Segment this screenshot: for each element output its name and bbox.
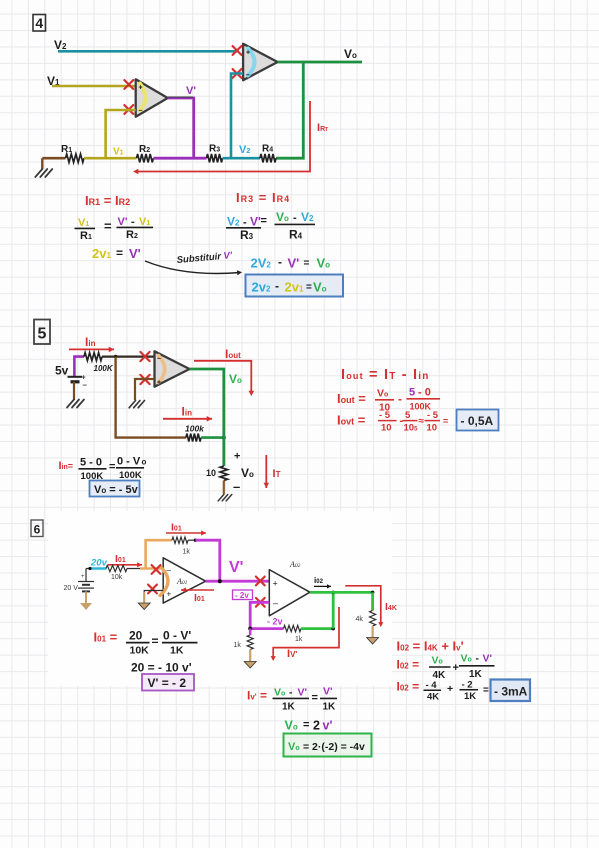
wire 1k to output node (green) xyxy=(301,627,335,631)
svg-text:5: 5 xyxy=(409,387,415,399)
svg-text:IT: IT xyxy=(273,468,281,480)
svg-text:2v1: 2v1 xyxy=(92,246,111,261)
node V1 junction label xyxy=(113,147,124,158)
svg-text:V2: V2 xyxy=(227,215,240,229)
svg-text:=: = xyxy=(261,215,267,227)
resistor 1k feedback xyxy=(172,537,197,556)
X mark A01 minus input xyxy=(152,565,161,574)
equation 20 = -10V' xyxy=(131,661,192,675)
boxed result Vo = 2(-2) = -4v xyxy=(284,734,372,757)
X mark U3 minus input xyxy=(140,352,149,361)
svg-text:+: + xyxy=(447,683,453,695)
svg-text:=: = xyxy=(306,282,312,293)
equation Io2 = I4K + Iv' xyxy=(397,639,464,654)
svg-text:V': V' xyxy=(323,686,333,698)
current label I01 output xyxy=(181,587,214,604)
svg-text:-: - xyxy=(275,279,279,293)
wire 10 to ground (brown) xyxy=(223,481,225,495)
wire ground to R1 (brown) xyxy=(42,157,65,160)
X mark U1 plus input xyxy=(124,80,133,89)
svg-text:1k: 1k xyxy=(183,549,191,556)
svg-text:V': V' xyxy=(298,687,308,699)
current arrow I4K xyxy=(345,586,397,627)
svg-text:- 2v: - 2v xyxy=(235,591,249,600)
svg-text:100K: 100K xyxy=(119,470,142,481)
resistor 4k load xyxy=(356,592,379,644)
ground G3 xyxy=(129,401,144,408)
svg-text:10: 10 xyxy=(206,468,216,478)
svg-text:Vo: Vo xyxy=(432,655,443,667)
resistor 10 load xyxy=(206,451,254,495)
battery B1 xyxy=(68,375,88,401)
svg-text:IRT: IRT xyxy=(317,122,328,134)
wire 20v overdraw (teal) xyxy=(88,567,106,570)
svg-text:Vo: Vo xyxy=(285,719,298,733)
wire U1 feedback (olive) xyxy=(106,110,136,158)
svg-text:V': V' xyxy=(288,256,300,271)
current label I01 feedback xyxy=(166,522,206,536)
wire R2 to R3 (purple) xyxy=(153,157,206,160)
svg-text:R4: R4 xyxy=(289,227,303,241)
wire A01 output V-prime (purple) xyxy=(206,579,270,583)
svg-text:=: = xyxy=(116,246,123,260)
wire resistor to U3 (dark) xyxy=(102,355,155,359)
svg-text:V1: V1 xyxy=(78,217,89,229)
op-amp U3 xyxy=(155,351,190,386)
svg-text:R1: R1 xyxy=(61,144,72,155)
svg-text:V' = - 2: V' = - 2 xyxy=(148,676,187,690)
equation IR1 = IR2 xyxy=(85,193,130,208)
wire U2 output Vo (green) xyxy=(276,62,362,158)
resistor R4 xyxy=(260,144,276,163)
ground G4 xyxy=(218,495,232,501)
svg-text:+: + xyxy=(234,451,240,463)
node V1 label xyxy=(47,74,60,88)
svg-text:V': V' xyxy=(129,246,141,261)
svg-text:=: = xyxy=(152,634,159,648)
svg-text:+: + xyxy=(246,50,250,57)
node V2 label xyxy=(54,38,67,52)
svg-text:V1: V1 xyxy=(113,147,124,158)
current arrow IRT xyxy=(133,101,328,174)
svg-text:Iout: Iout xyxy=(225,347,241,361)
svg-text:2: 2 xyxy=(313,719,320,733)
svg-text:Iin=: Iin= xyxy=(59,460,74,472)
label -2v boxed xyxy=(233,590,253,600)
wire V2 input (teal) xyxy=(58,50,237,53)
resistor R2 xyxy=(137,144,154,162)
X mark U3 plus input xyxy=(140,375,149,384)
svg-text:Iout = IT - Iin: Iout = IT - Iin xyxy=(341,367,430,383)
svg-text:Substituir V': Substituir V' xyxy=(176,250,233,266)
svg-text:R3: R3 xyxy=(209,144,220,155)
svg-text:Vo: Vo xyxy=(274,687,285,699)
X mark A01 plus input xyxy=(148,585,157,594)
resistor 1k feedback A02 xyxy=(284,625,303,643)
svg-text:R1: R1 xyxy=(80,230,92,242)
svg-text:Iin: Iin xyxy=(182,405,193,419)
svg-text:10: 10 xyxy=(381,423,392,434)
op-amp U1 xyxy=(136,79,168,116)
boxed result Vo = -5v xyxy=(90,481,140,497)
svg-text:= 2·(-2) = -4v: = 2·(-2) = -4v xyxy=(303,741,365,753)
boxed result -0.5A xyxy=(457,410,499,431)
svg-text:10K: 10K xyxy=(130,645,150,657)
svg-text:Vo: Vo xyxy=(461,653,472,665)
svg-text:V2: V2 xyxy=(301,210,314,224)
equation (V2-V')/R3 = (Vo-V2)/R4 xyxy=(226,210,315,242)
node V-prime label p6 xyxy=(229,559,243,576)
equation Io2 = -4/4K + -2/1K = -3mA xyxy=(397,680,490,703)
svg-text:4K: 4K xyxy=(427,692,439,703)
svg-text:Vo = - 5v: Vo = - 5v xyxy=(94,484,139,496)
current label Iin top xyxy=(69,335,114,352)
svg-text:Vo: Vo xyxy=(241,466,254,480)
svg-text:Vo: Vo xyxy=(229,372,242,386)
svg-text:-: - xyxy=(476,653,480,665)
wire U3 plus to ground (brown) xyxy=(135,379,155,400)
svg-text:1K: 1K xyxy=(323,702,337,713)
wire R1 to R2 node V1 (olive) xyxy=(84,157,137,160)
svg-text:=: = xyxy=(312,692,318,704)
svg-text:+: + xyxy=(273,579,278,589)
problem number 4 box xyxy=(33,15,46,32)
voltage source 20V xyxy=(64,569,95,611)
wire feedback to output node (green) xyxy=(201,436,226,440)
node V2 junction label xyxy=(239,144,250,156)
svg-text:=: = xyxy=(104,219,112,234)
svg-text:1K: 1K xyxy=(469,669,483,680)
current arrow Iout xyxy=(194,347,254,396)
equation V1/R1 = (V'-V1)/R2 xyxy=(75,216,154,242)
feedback wire (brown) xyxy=(116,357,186,438)
resistor 10k xyxy=(106,565,127,581)
svg-text:105: 105 xyxy=(404,423,419,434)
label -2v feedback xyxy=(267,617,283,627)
wire R3 to R4 node V2 (teal) xyxy=(223,157,261,160)
wire green vertical junction xyxy=(331,591,335,629)
svg-text:1k: 1k xyxy=(234,642,242,649)
svg-text:10k: 10k xyxy=(111,574,123,581)
svg-text:+: + xyxy=(139,85,143,92)
resistor 1k to ground xyxy=(234,629,257,668)
svg-text:5v: 5v xyxy=(55,364,69,378)
current label Iin feedback xyxy=(163,405,212,422)
svg-text:+: + xyxy=(453,662,459,674)
source 5v wire (purple) xyxy=(74,357,84,376)
node Vo label xyxy=(229,372,242,386)
wire A01 plus to ground xyxy=(144,591,163,603)
svg-text:- 0,5A: - 0,5A xyxy=(461,414,494,428)
feedback wire orange up xyxy=(146,540,172,568)
svg-text:I02 =: I02 = xyxy=(397,680,420,694)
resistor 100K input xyxy=(84,353,114,373)
svg-text:R4: R4 xyxy=(262,144,273,155)
resistor 100k feedback xyxy=(185,423,205,441)
substitution arrow xyxy=(145,250,242,275)
svg-text:- 5: - 5 xyxy=(379,410,391,421)
problem number 5 box xyxy=(34,320,50,345)
ground G2 xyxy=(67,400,84,408)
svg-text:R2: R2 xyxy=(126,229,138,241)
boxed result V' = -2 xyxy=(142,674,194,691)
svg-text:I01 =: I01 = xyxy=(94,630,118,645)
equation I01 = 20/10K = (0-V')/1K xyxy=(94,629,198,657)
svg-text:-: - xyxy=(278,255,282,269)
svg-text:2V2: 2V2 xyxy=(251,256,272,271)
svg-text:Iovt =: Iovt = xyxy=(337,413,366,428)
svg-text:- 0: - 0 xyxy=(418,387,431,399)
svg-text:Vo: Vo xyxy=(344,47,357,61)
svg-text:+: + xyxy=(81,574,85,580)
svg-text:I02 = I4K + Iv': I02 = I4K + Iv' xyxy=(397,639,464,654)
problem number 6 box xyxy=(31,520,43,537)
svg-text:–: – xyxy=(83,381,88,390)
svg-text:V': V' xyxy=(186,85,196,97)
svg-text:V': V' xyxy=(250,215,261,229)
svg-text:-: - xyxy=(131,216,135,228)
svg-text:1K: 1K xyxy=(282,702,296,713)
svg-text:R3: R3 xyxy=(240,228,254,242)
X mark U1 minus input xyxy=(124,105,133,114)
X mark A02 minus input xyxy=(256,598,265,607)
wire overdraw orange input xyxy=(140,567,160,570)
equation Io2 = Vo/4K + (Vo-V')/1K xyxy=(397,653,495,682)
label io2 printed xyxy=(314,576,331,589)
svg-text:5: 5 xyxy=(38,326,47,343)
svg-text:IV': IV' xyxy=(287,648,297,660)
wire V1 input (olive) xyxy=(52,85,136,88)
X mark A02 plus input xyxy=(256,577,265,586)
svg-text:Vo: Vo xyxy=(377,388,388,400)
wire U3 output Vo (green) xyxy=(190,369,224,466)
ground A01 (printed) xyxy=(138,603,150,610)
svg-text:0 - V': 0 - V' xyxy=(163,629,191,643)
svg-text:Vo: Vo xyxy=(276,210,289,224)
svg-text:20v: 20v xyxy=(90,558,108,569)
svg-text:–: – xyxy=(246,72,250,79)
svg-text:–: – xyxy=(157,356,161,363)
node Vo label xyxy=(344,47,357,61)
equation 2V2 - V' = Vo xyxy=(251,255,331,271)
wire source top (printed) xyxy=(86,568,106,570)
svg-text:100K: 100K xyxy=(94,364,114,373)
feedback wire purple down xyxy=(195,540,219,581)
svg-text:-: - xyxy=(293,212,297,224)
boxed result -3mA xyxy=(491,680,531,702)
svg-text:V': V' xyxy=(118,216,128,228)
svg-text:V': V' xyxy=(483,653,493,665)
svg-text:=: = xyxy=(303,719,309,731)
svg-text:=: = xyxy=(443,416,448,426)
boxed result 2V2 - 2V1 = Vo xyxy=(246,275,344,297)
svg-text:- 2v: - 2v xyxy=(267,617,283,627)
svg-text:- 3mA: - 3mA xyxy=(494,685,528,699)
X mark U2 plus input xyxy=(233,46,242,55)
svg-text:V2: V2 xyxy=(54,38,67,52)
svg-text:1k: 1k xyxy=(295,636,303,643)
svg-text:-: - xyxy=(243,217,247,229)
svg-text:5 - 0: 5 - 0 xyxy=(80,457,102,469)
label 20v teal xyxy=(90,558,108,569)
svg-text:1K: 1K xyxy=(170,645,184,657)
equation Iout = IT - Iin xyxy=(341,367,430,383)
svg-text:Iout =: Iout = xyxy=(337,391,366,406)
svg-text:=: = xyxy=(304,258,310,269)
X mark U2 minus input xyxy=(233,69,242,78)
svg-text:- 2: - 2 xyxy=(462,680,473,691)
equation 2V1 = V-prime xyxy=(92,246,141,261)
svg-text:–: – xyxy=(273,598,278,608)
svg-text:≈: ≈ xyxy=(419,416,425,427)
svg-text:4k: 4k xyxy=(356,616,364,623)
feedback wire A02 (purple) xyxy=(248,602,283,630)
svg-text:=: = xyxy=(483,685,489,696)
wire U2 feedback (teal) xyxy=(231,74,243,159)
svg-text:+: + xyxy=(157,380,161,387)
node V-prime label xyxy=(186,85,196,97)
svg-text:0 - V: 0 - V xyxy=(117,456,141,468)
equation Iv' = (Vo-V')/1K = V'/1K xyxy=(247,686,337,713)
wire A02 output (green) xyxy=(310,591,375,595)
equation IR3 = IR4 xyxy=(236,190,290,205)
svg-text:-: - xyxy=(289,687,293,699)
svg-text:Iin: Iin xyxy=(85,335,96,349)
orange arc inside A01 xyxy=(160,567,168,596)
svg-text:+: + xyxy=(167,590,172,599)
pasted image white backdrop xyxy=(48,511,392,686)
wire U1 output V-prime (purple) xyxy=(168,97,194,158)
svg-text:V': V' xyxy=(229,559,243,576)
svg-text:o: o xyxy=(142,458,147,467)
equation Iout = Vo/10 - (5-0)/100K xyxy=(337,387,440,414)
svg-text:Vo: Vo xyxy=(317,256,331,271)
svg-text:20: 20 xyxy=(129,629,143,643)
equation Iin = (5-0)/100K = (0-Vo)/100K xyxy=(59,456,147,483)
svg-text:100k: 100k xyxy=(185,423,205,433)
svg-text:5: 5 xyxy=(405,410,411,421)
svg-text:1K: 1K xyxy=(464,691,476,702)
svg-text:IR3 = IR4: IR3 = IR4 xyxy=(236,190,290,205)
svg-text:–: – xyxy=(233,479,240,494)
current arrow IT xyxy=(264,455,281,488)
svg-text:v': v' xyxy=(323,719,333,733)
wire 10k to U4 (printed) xyxy=(127,568,163,570)
svg-text:20 = - 10 v': 20 = - 10 v' xyxy=(131,661,192,675)
resistor R1 xyxy=(61,144,84,162)
op-amp U2 xyxy=(243,44,278,80)
svg-text:–: – xyxy=(139,108,143,115)
svg-text:- 5: - 5 xyxy=(427,410,439,421)
svg-text:6: 6 xyxy=(34,523,41,537)
svg-text:Iv' =: Iv' = xyxy=(247,689,267,703)
svg-text:=: = xyxy=(109,461,115,473)
svg-text:20 V: 20 V xyxy=(64,585,79,592)
current arrow IV-prime xyxy=(271,607,339,661)
op-amp A02 xyxy=(269,560,310,616)
svg-text:- 4: - 4 xyxy=(426,680,438,691)
svg-text:10: 10 xyxy=(427,423,438,434)
svg-text:4: 4 xyxy=(35,15,43,31)
resistor R3 xyxy=(207,144,223,163)
ground G1 xyxy=(35,158,52,177)
label 5v xyxy=(55,364,69,378)
svg-text:IR1 = IR2: IR1 = IR2 xyxy=(85,193,130,208)
equation Iout = -5/10 - 5/10^5 = -0.5A xyxy=(337,410,448,434)
current label I01 input xyxy=(108,553,142,567)
equation Vo = 2V' xyxy=(285,719,333,733)
svg-text:V1: V1 xyxy=(139,216,150,228)
svg-text:V2: V2 xyxy=(239,144,250,156)
svg-text:R2: R2 xyxy=(139,144,150,155)
svg-text:-: - xyxy=(398,392,402,406)
op-amp A01 xyxy=(163,558,205,603)
svg-text:I02 =: I02 = xyxy=(397,658,420,672)
